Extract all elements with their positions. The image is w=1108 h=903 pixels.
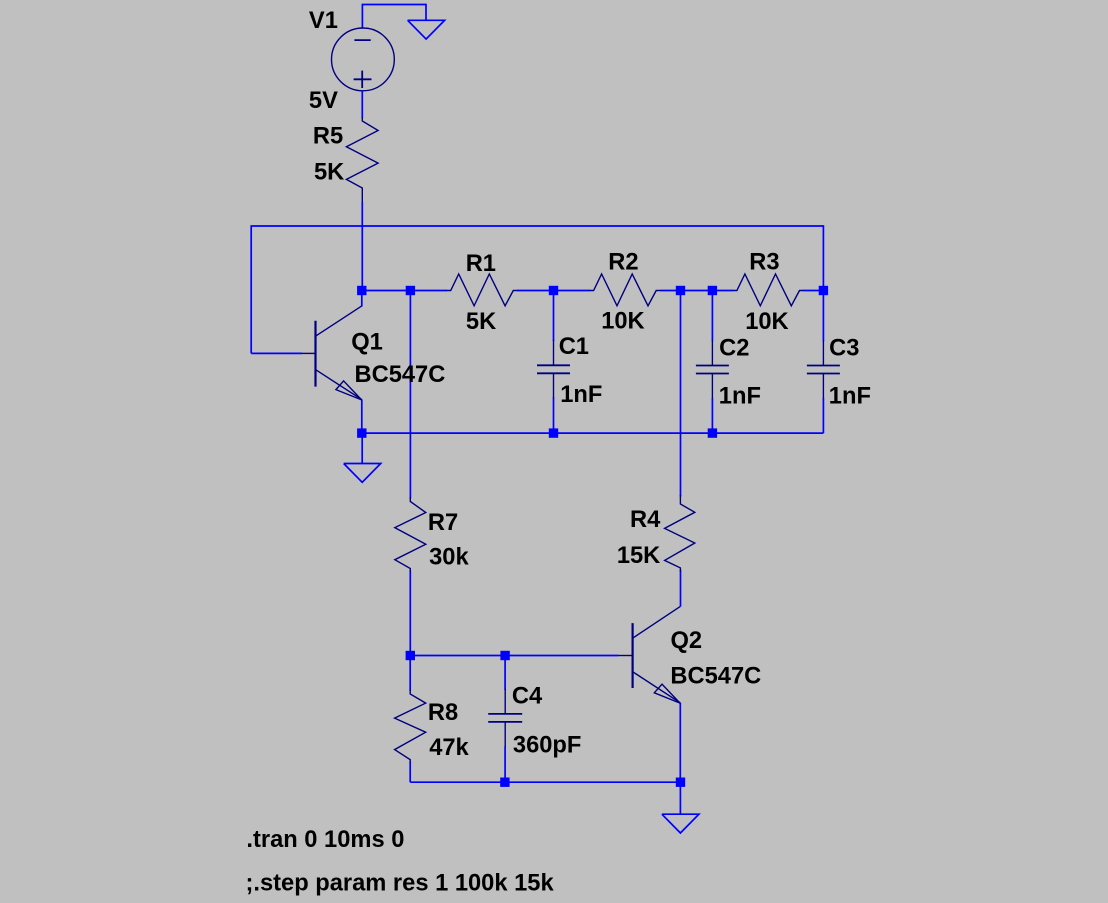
svg-text:30k: 30k	[429, 545, 469, 571]
wire feedback left vertical	[250, 225, 252, 353]
svg-text:R1: R1	[466, 251, 496, 277]
resistor R4 (15K)	[665, 495, 695, 572]
node junction R1-R2 / C1	[549, 286, 558, 295]
capacitor C3 (1nF)	[822, 341, 824, 366]
svg-text:5K: 5K	[466, 309, 496, 335]
node junction C1 bottom	[549, 428, 558, 437]
wire down into ground symbol	[425, 4, 427, 21]
transistor Q2 (BC547C npn)	[631, 623, 633, 688]
wire C2 bottom to rail	[711, 398, 713, 433]
svg-text:Q1: Q1	[351, 329, 383, 355]
resistor R1 (5K)	[447, 274, 518, 306]
wire feedback right vertical	[822, 225, 824, 290]
wire ground rail	[362, 432, 824, 434]
ground (Q2 emitter)	[679, 782, 681, 814]
wire node B down to C1	[553, 291, 555, 342]
capacitor C1 (1nF)	[553, 340, 555, 365]
wire R4 to Q2 collector	[680, 570, 682, 607]
wire node D down to C3	[822, 291, 824, 342]
svg-text:Q2: Q2	[671, 628, 703, 654]
capacitor C2 (1nF)	[711, 341, 713, 366]
resistor R2 (10K)	[590, 274, 661, 306]
svg-text:V1: V1	[309, 8, 338, 34]
wire Q1 collector	[361, 291, 363, 307]
svg-text:1nF: 1nF	[560, 382, 602, 408]
node junction C4 bottom	[500, 778, 509, 787]
wire node C to R4 (crosses rail)	[680, 291, 682, 497]
node junction Q2 emitter / ground	[676, 778, 685, 787]
wire Q1 emitter to rail	[361, 400, 363, 434]
svg-text:10K: 10K	[601, 309, 644, 335]
wire Q2 emitter down	[679, 703, 681, 783]
wire R2 to R3 segment	[661, 290, 734, 292]
wire C1 bottom to rail	[553, 398, 555, 434]
svg-text:1nF: 1nF	[719, 383, 761, 409]
node junction R7 / R8 / Q2 base	[406, 651, 415, 660]
svg-text:R8: R8	[428, 700, 458, 726]
svg-text:;.step param res 1 100k 15k: ;.step param res 1 100k 15k	[246, 870, 555, 896]
node junction C2 top	[708, 286, 717, 295]
svg-text:1nF: 1nF	[829, 383, 871, 409]
node junction collector Q1 / R5	[357, 286, 366, 295]
svg-text:R7: R7	[428, 510, 458, 536]
voltage source V1 (circle)	[332, 28, 395, 91]
resistor R7 (30k)	[395, 497, 426, 572]
wire to Q1 base	[251, 352, 302, 354]
wire feedback top horizontal	[251, 225, 823, 227]
svg-text:C1: C1	[559, 334, 589, 360]
node junction R7 top	[406, 286, 415, 295]
wire C4 to bottom rail	[504, 747, 506, 783]
V1 minus sign	[354, 39, 370, 41]
svg-text:360pF: 360pF	[513, 733, 581, 759]
svg-text:BC547C: BC547C	[670, 664, 761, 690]
wire V1 plus terminal to ground net	[361, 5, 363, 29]
svg-text:R4: R4	[630, 507, 661, 533]
svg-text:R2: R2	[608, 250, 638, 276]
svg-text:47k: 47k	[429, 735, 469, 761]
wire R5 to node A (crosses base wire)	[361, 202, 363, 291]
capacitor C4 (360pF)	[504, 689, 506, 714]
svg-text:C2: C2	[719, 336, 749, 362]
wire R1 to C1 node	[517, 290, 590, 292]
wire node A to R1	[362, 290, 447, 292]
node junction R3 / C3 / feedback	[819, 286, 828, 295]
ground (Q1 emitter)	[361, 433, 363, 463]
V1 plus sign	[354, 78, 372, 80]
wire R7 to Q2 base node	[409, 571, 411, 656]
wire top horizontal to ground	[362, 4, 426, 6]
wire R8 to bottom rail	[409, 762, 411, 783]
svg-text:.tran 0 10ms 0: .tran 0 10ms 0	[246, 827, 404, 853]
node junction emitter Q1 / ground rail	[357, 428, 366, 437]
svg-text:R3: R3	[749, 250, 779, 276]
svg-text:15K: 15K	[617, 543, 660, 569]
node junction R4 top	[676, 286, 685, 295]
resistor R3 (10K)	[733, 274, 804, 306]
node junction C2 bottom	[708, 428, 717, 437]
wire node C down to C2	[711, 291, 713, 342]
svg-text:C3: C3	[829, 336, 859, 362]
ground (top right, net 0)	[425, 19, 427, 21]
svg-text:C4: C4	[512, 684, 543, 710]
wire V1 bottom to R5	[361, 91, 363, 118]
svg-text:5V: 5V	[309, 88, 338, 114]
wire R3 to node D	[803, 290, 823, 292]
svg-text:10K: 10K	[745, 309, 788, 335]
node junction C4 top	[500, 651, 509, 660]
svg-text:BC547C: BC547C	[355, 362, 446, 388]
resistor R5 (5K)	[346, 117, 378, 203]
svg-text:R5: R5	[313, 123, 343, 149]
wire Q2 base horizontal	[410, 655, 618, 657]
svg-text:5K: 5K	[314, 160, 344, 186]
transistor Q1 (BC547C npn)	[314, 321, 316, 387]
wire node A2 to R7 (crosses rail)	[409, 291, 411, 499]
resistor R8 (47k)	[395, 690, 426, 763]
wire C3 bottom to rail	[822, 398, 824, 433]
wire bottom rail	[410, 781, 680, 783]
wire node F to C4	[504, 656, 506, 691]
wire node E to R8	[409, 656, 411, 692]
